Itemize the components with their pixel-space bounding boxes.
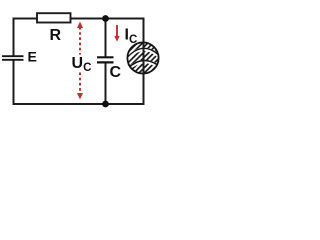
wire right vertical through lamp bbox=[143, 18, 145, 106]
node junction bottom bbox=[102, 101, 109, 108]
lamp load (hatched circle) bbox=[126, 41, 160, 75]
wire capacitor branch upper bbox=[105, 19, 107, 58]
resistor R1 box bbox=[37, 13, 71, 22]
svg-text:R: R bbox=[50, 27, 62, 44]
battery E plates bbox=[2, 56, 24, 60]
wire capacitor branch lower bbox=[105, 63, 107, 105]
svg-text:UC: UC bbox=[72, 55, 92, 74]
svg-text:E: E bbox=[28, 49, 37, 65]
arrow Ic (solid red, down) bbox=[114, 25, 119, 42]
wire top horizontal bbox=[14, 18, 144, 20]
capacitor C plates bbox=[97, 57, 114, 62]
arrow Uc (dashed red, double headed) bbox=[77, 22, 83, 100]
node junction top bbox=[102, 15, 109, 22]
wire bottom horizontal bbox=[14, 103, 144, 105]
wire left vertical lower bbox=[13, 60, 15, 105]
wire left vertical upper bbox=[13, 18, 15, 57]
svg-text:C: C bbox=[110, 64, 122, 81]
svg-text:IC: IC bbox=[125, 27, 138, 46]
